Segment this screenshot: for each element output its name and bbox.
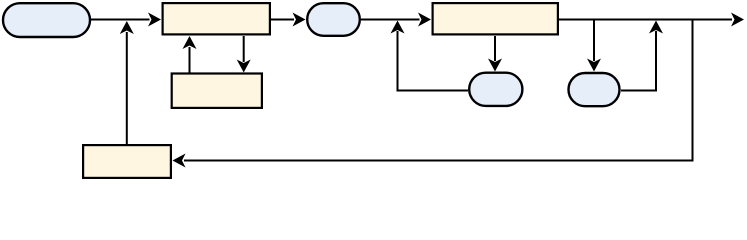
node stadium B (small blue stadium) xyxy=(307,3,360,36)
feedback block (yellow rect, bottom-left) xyxy=(83,145,171,178)
process block P1 (yellow rect, top) xyxy=(163,3,270,34)
start terminator (blue stadium, top-left) xyxy=(3,3,90,37)
wire: stadium B to rect3 xyxy=(361,19,420,21)
wire: rect1 to stadium B xyxy=(271,19,294,21)
wire: P2 up to P1 xyxy=(189,47,191,73)
arrowhead into rect1 xyxy=(148,13,161,27)
wire: rect3 down to stadium C xyxy=(494,36,496,61)
process block P3 (large yellow rect, top-right) xyxy=(433,3,558,34)
arrowhead into rect3 xyxy=(418,13,431,27)
wire: main line stadium A to rect1 xyxy=(91,19,150,21)
state stadium D (blue, right) xyxy=(569,73,620,106)
arrowhead down into stadium C xyxy=(488,59,502,72)
arrowhead up onto main line (x=397) xyxy=(391,21,405,34)
wire: bottom rect up to main line xyxy=(126,32,128,145)
wire: feedback from main line down and left to bottom rect xyxy=(184,20,693,161)
wire: stadium C feedback left and up to main line xyxy=(398,31,469,91)
arrowhead up onto main line (x=656) xyxy=(649,21,663,34)
wire: main line branch down to stadium D xyxy=(593,20,595,62)
arrowhead output right xyxy=(731,13,744,27)
wire: P1 down to P2 xyxy=(243,36,245,62)
wire: stadium D right and up to main line xyxy=(621,31,656,91)
arrowhead down into stadium D xyxy=(587,59,601,72)
sub block P2 (yellow rect under P1) xyxy=(172,74,262,108)
arrowhead left into bottom rect xyxy=(173,154,186,168)
arrowhead into stadium B xyxy=(293,13,306,27)
state stadium C (blue, below rect3) xyxy=(469,73,522,106)
arrowhead up into P1 bottom xyxy=(183,36,197,49)
arrowhead up onto main line (x=127) xyxy=(120,21,134,34)
arrowhead down into P2 top xyxy=(237,60,251,73)
wire: rect3 output to right edge xyxy=(559,19,732,21)
